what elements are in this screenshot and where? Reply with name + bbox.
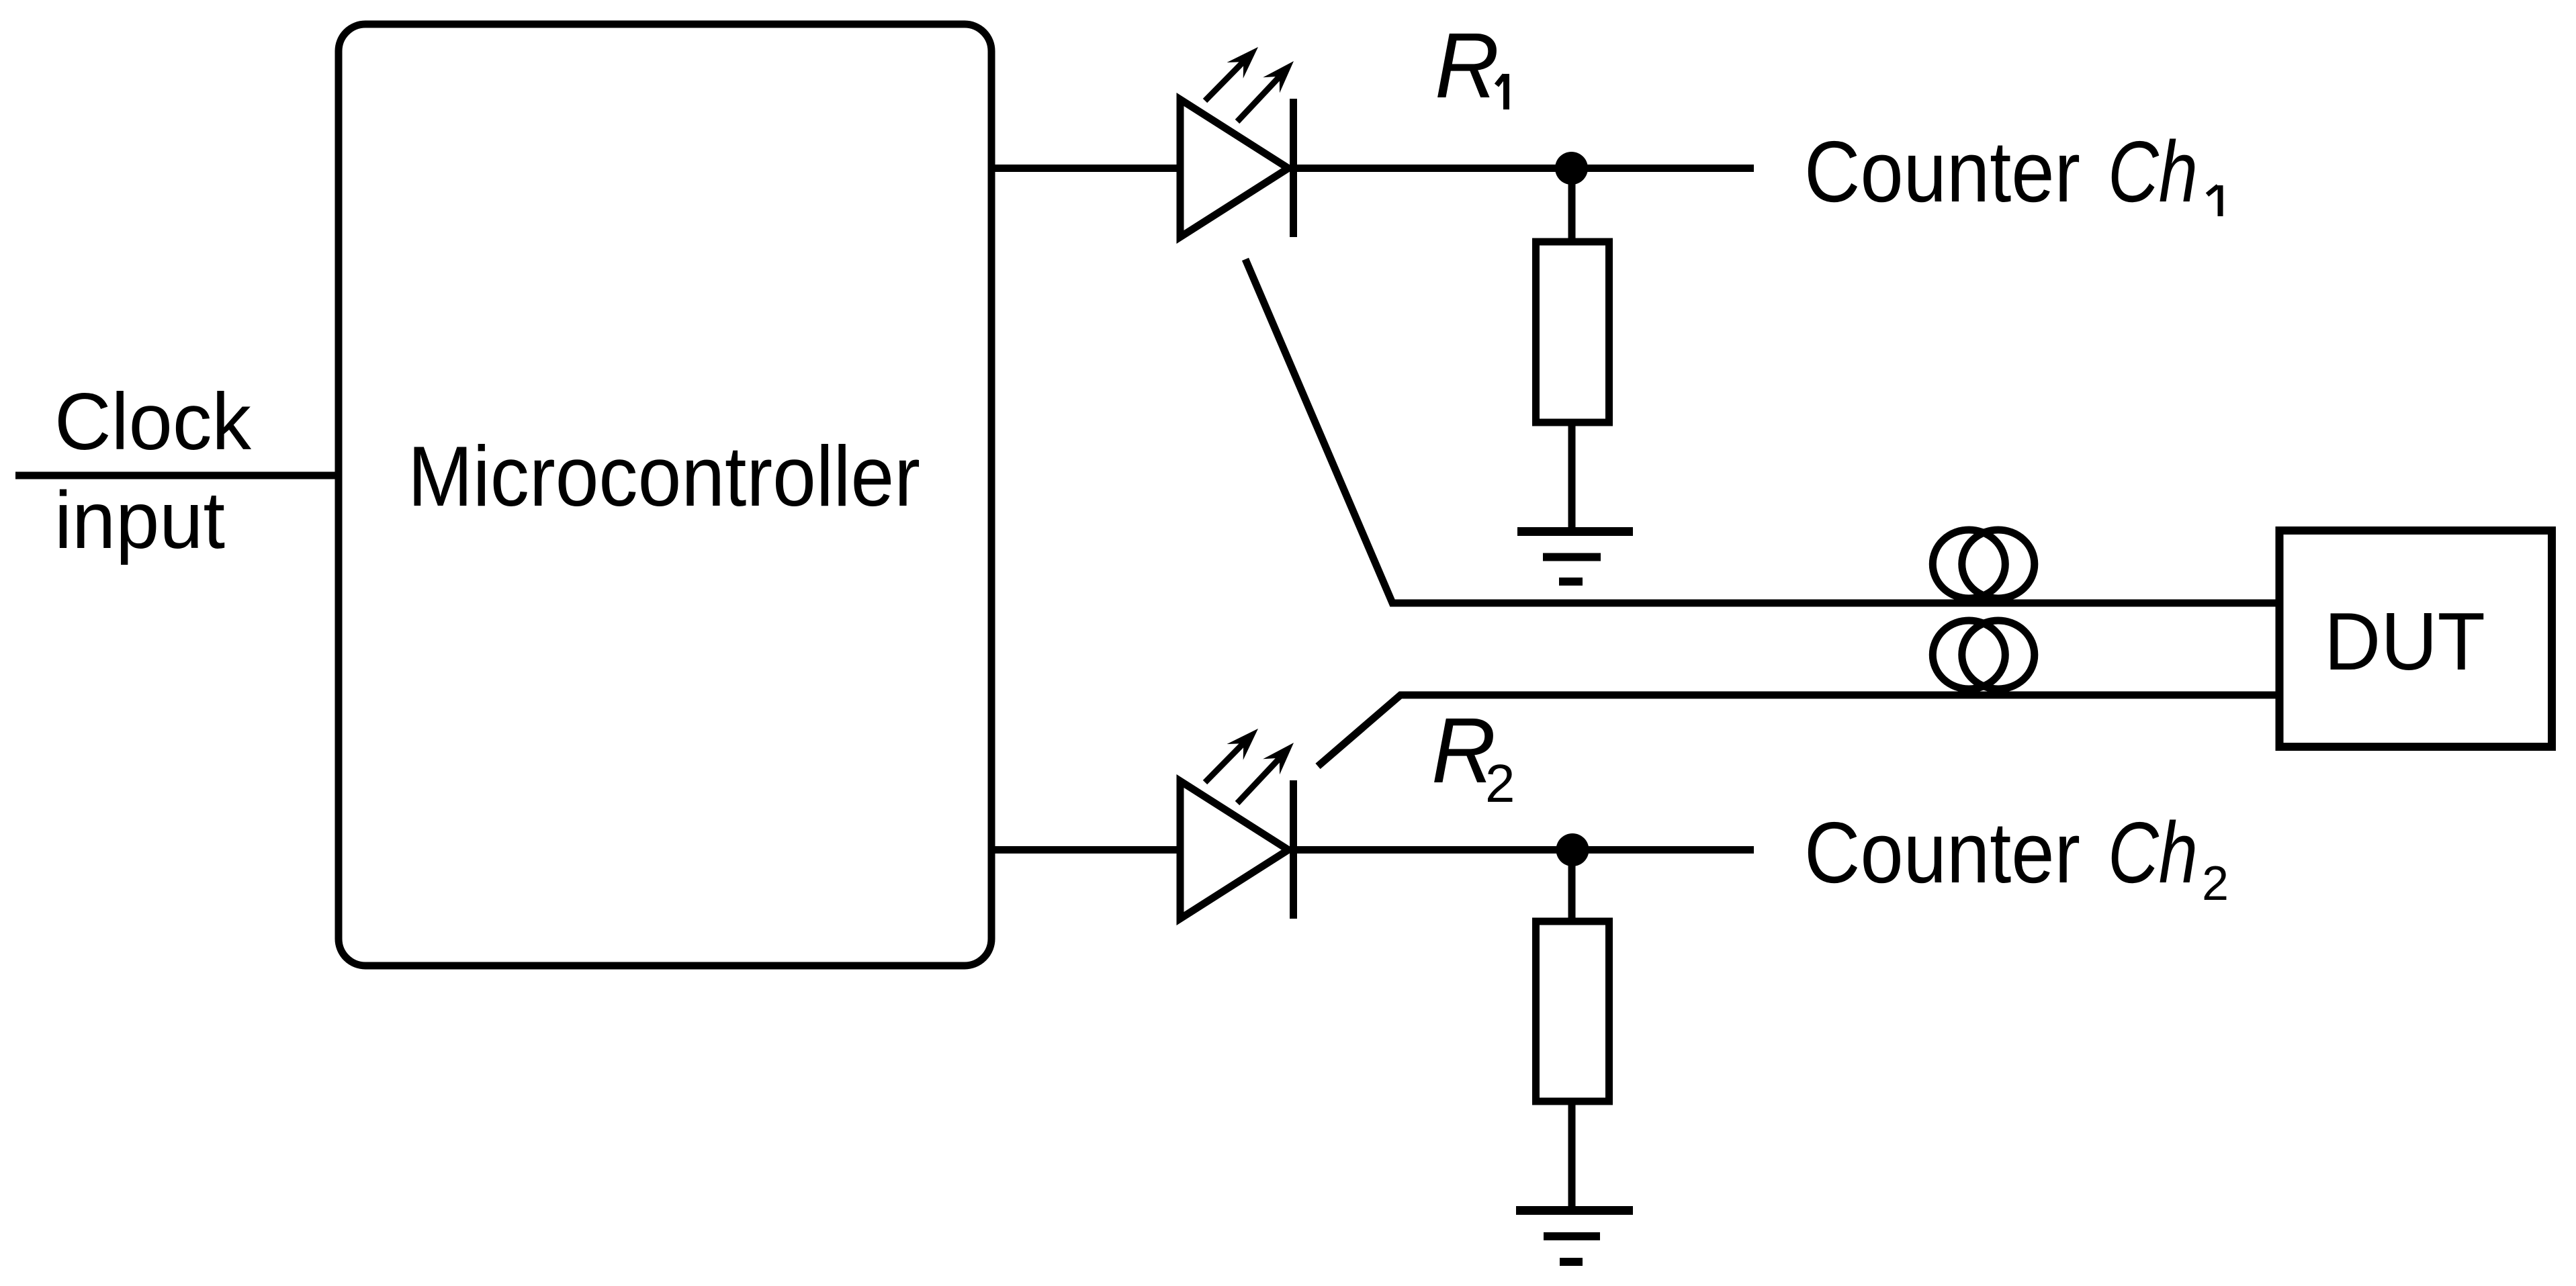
svg-text:Counter: Counter bbox=[1804, 124, 2080, 220]
svg-text:input: input bbox=[54, 474, 225, 565]
svg-text:Clock: Clock bbox=[54, 377, 252, 467]
svg-text:2: 2 bbox=[2202, 857, 2229, 911]
svg-text:Counter: Counter bbox=[1804, 805, 2080, 901]
svg-text:Ch: Ch bbox=[2108, 805, 2198, 901]
svg-text:Ch: Ch bbox=[2108, 124, 2198, 220]
svg-text:DUT: DUT bbox=[2324, 596, 2485, 687]
svg-text:2: 2 bbox=[1485, 753, 1515, 813]
svg-text:Microcontroller: Microcontroller bbox=[408, 428, 920, 524]
svg-text:R: R bbox=[1435, 14, 1499, 118]
